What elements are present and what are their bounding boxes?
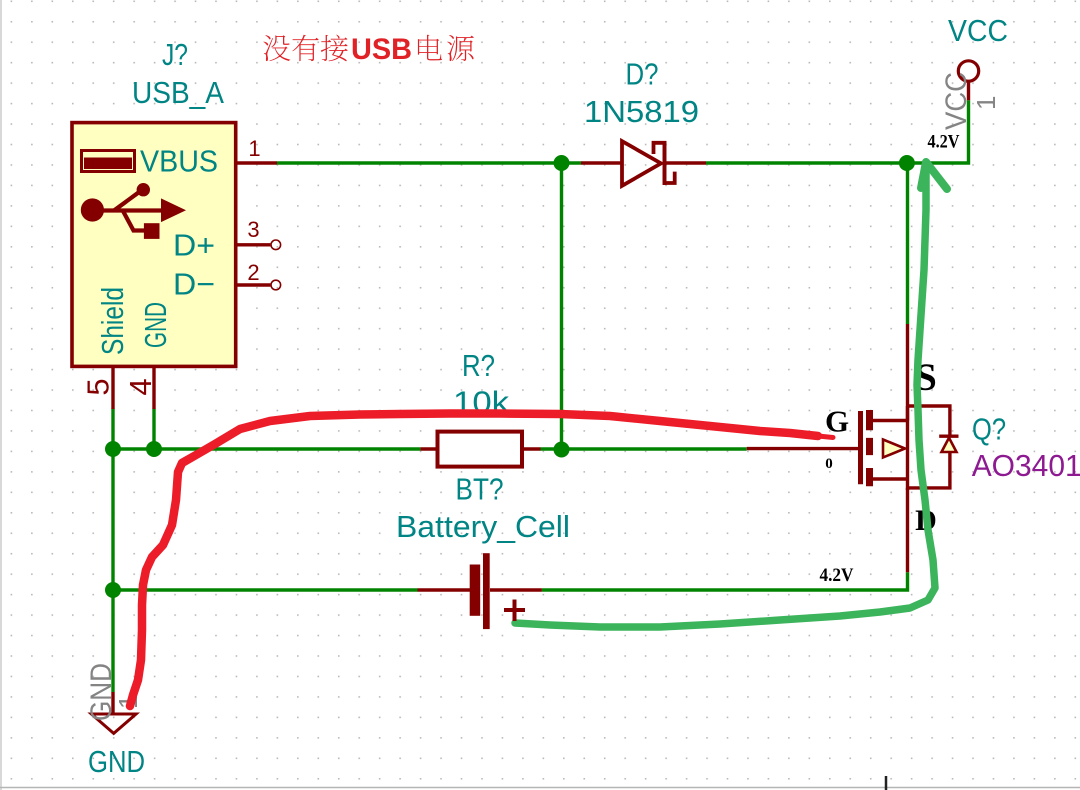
svg-text:2: 2 (247, 260, 259, 285)
svg-text:BT?: BT? (456, 472, 504, 507)
svg-text:Battery_Cell: Battery_Cell (396, 509, 570, 544)
svg-text:VCC: VCC (948, 13, 1008, 48)
svg-text:5: 5 (81, 378, 116, 395)
svg-text:GND: GND (138, 302, 173, 348)
svg-text:G: G (825, 404, 849, 439)
svg-text:1: 1 (248, 136, 260, 161)
svg-text:4.2V: 4.2V (820, 565, 854, 586)
svg-text:1N5819: 1N5819 (584, 94, 699, 129)
svg-text:3: 3 (247, 217, 259, 242)
svg-text:VBUS: VBUS (140, 144, 218, 179)
svg-text:VCC: VCC (940, 72, 973, 130)
svg-text:4: 4 (123, 378, 158, 395)
svg-text:AO3401: AO3401 (972, 448, 1080, 483)
svg-text:D−: D− (173, 267, 215, 302)
svg-text:Shield: Shield (95, 287, 130, 355)
svg-text:USB: USB (351, 33, 412, 66)
svg-text:D?: D? (626, 57, 659, 92)
svg-text:GND: GND (88, 744, 145, 779)
svg-text:1: 1 (971, 96, 1001, 110)
svg-text:D+: D+ (173, 228, 215, 263)
svg-text:Q?: Q? (972, 412, 1006, 447)
svg-text:4.2V: 4.2V (928, 132, 960, 153)
svg-text:0: 0 (825, 456, 833, 472)
svg-text:USB_A: USB_A (132, 75, 224, 110)
svg-text:GND: GND (85, 663, 118, 721)
svg-text:J?: J? (162, 37, 188, 72)
svg-text:R?: R? (462, 348, 495, 383)
